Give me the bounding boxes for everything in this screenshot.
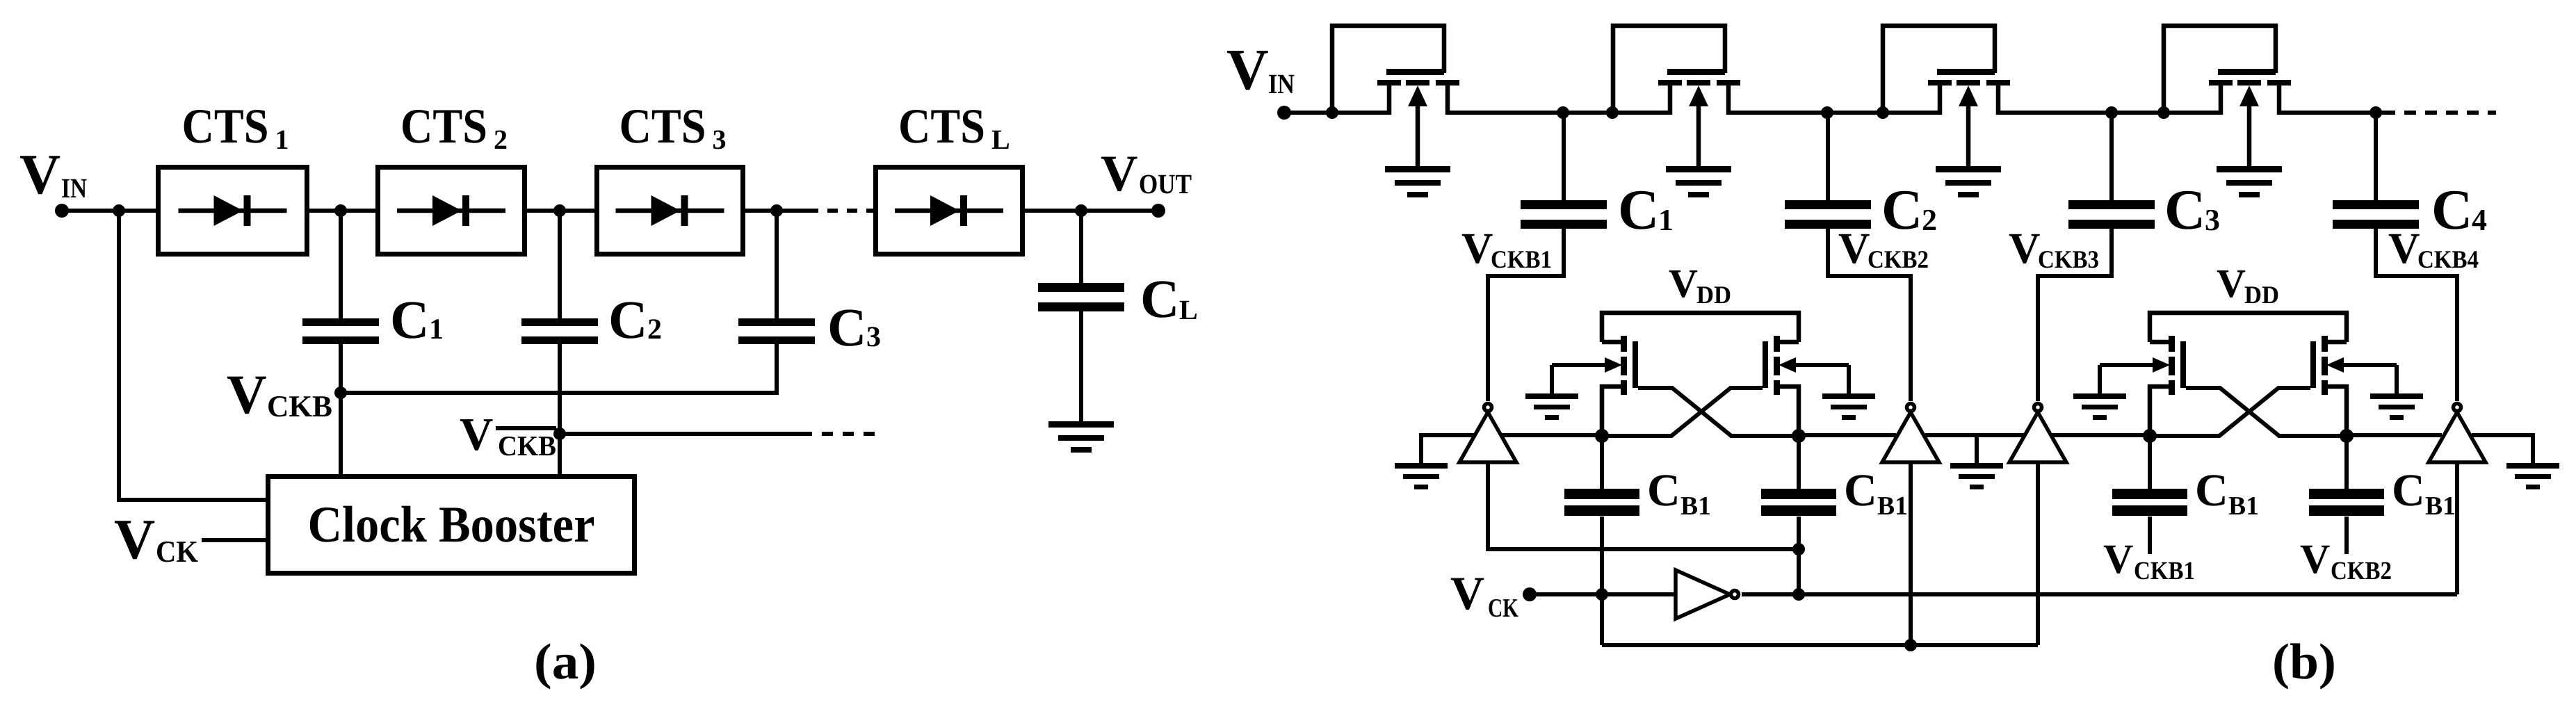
label CTS2 [400,99,508,155]
wire CTSL to VOUT [1025,209,1158,213]
label CTS1 [182,99,289,155]
wire rail dashed continuation [2383,111,2496,115]
svg-text:(a): (a) [534,633,597,690]
junction VCKbar tap for buffer A [1792,543,1805,555]
label C2 (b) [1881,178,1937,241]
junction C3 branch [2105,106,2118,119]
capacitor CB1 cell1 left top wire [1600,436,1604,490]
net VCKB2 label (top) [1838,224,1929,273]
transistor cell1 latch left: gate bar [1633,341,1638,388]
label CB1 cell1 right [1844,465,1908,521]
wire buffer D right to ground [2472,435,2533,464]
node VCK (a) label [114,507,198,571]
wire rail M1 to M2 [1446,111,1671,115]
svg-text:C: C [827,297,866,357]
transistor cell1 latch right: drain stub and wire [1777,387,1799,436]
net VCKBbar dashed continuation [822,432,884,436]
svg-text:C: C [2164,178,2205,241]
svg-text:V: V [227,364,267,425]
junction M1 gate loop [1326,106,1338,119]
label CB1 cell1 left [1647,465,1711,521]
wire cell1 right cap bottom to VCKbar [1797,517,1801,594]
junction VCK at cell1 left cap [1596,588,1608,601]
wire CTS2 to CTS3 [527,209,594,213]
CTSL box [876,168,1023,254]
svg-text:C: C [1844,465,1877,516]
capacitor C3 (a) bottom wire [775,343,779,395]
svg-text:CTS: CTS [182,99,269,154]
transistor cell2 latch right: drain stub and wire [2325,387,2347,436]
junction node L (a) [1075,204,1087,217]
VDD rail cell1 [1602,313,1799,342]
svg-text:2: 2 [1922,203,1937,237]
terminal VOUT [1151,204,1165,218]
net VCKB3 label (top) [2009,224,2099,273]
label C4 (b) [2431,178,2487,241]
transistor cell2 latch right: gate bar [2310,341,2316,388]
label CTSL [898,99,1010,155]
CTS1 box [159,168,307,254]
transistor cell2 latch right: source stub [2326,340,2347,345]
svg-text:V: V [2009,224,2041,273]
diode D1 [179,195,287,226]
buffer C VCKB3 (inverting, output up) [2009,404,2066,463]
svg-text:B1: B1 [1680,491,1711,521]
label CB1 cell2 left [2195,465,2259,521]
svg-text:DD: DD [1696,281,1731,309]
transistor M3 (diode-connected NMOS with bulk ground) [1883,26,2010,197]
CTS2 box [378,168,525,254]
svg-text:C: C [390,289,429,350]
svg-text:IN: IN [1268,68,1295,99]
svg-text:OUT: OUT [1139,168,1192,200]
ground CL [1048,421,1114,453]
capacitor C4 (b) [2333,200,2419,229]
wire rail VIN to M1 [1284,111,1391,115]
svg-text:V: V [2388,224,2420,273]
svg-text:B1: B1 [1877,491,1908,521]
capacitor CB1 cell2 left [2112,489,2187,516]
junction cell2 left boost node [2143,429,2157,443]
label CL [1140,268,1198,329]
wire VCKbar line [1742,592,2457,596]
capacitor C4 (b) top wire [2374,113,2378,202]
junction cell1 right boost node [1792,429,1806,443]
transistor cell2 latch left: bulk arrow [2100,357,2170,373]
net VCKB wire [341,391,777,395]
svg-text:V: V [1838,224,1870,273]
wire cross-couple cell2 left gate to right node [2186,388,2347,436]
wire cell1 right node to buffer B [1799,433,1896,437]
wire buffer B right / buffer C left with ground tap [1925,433,2024,437]
svg-text:Clock Booster: Clock Booster [308,496,595,553]
CTS3 box [597,168,743,254]
svg-text:3: 3 [866,321,881,353]
wire cell2 right node to buffer D [2347,433,2442,437]
svg-text:V: V [2103,536,2133,582]
svg-text:CK: CK [156,535,198,569]
wire ground tap between B and C [1975,435,1979,464]
ground buffer A [1395,463,1448,489]
svg-text:V: V [2300,536,2330,582]
transistor M4 (diode-connected NMOS with bulk ground) [2164,26,2291,197]
svg-text:L: L [1179,294,1198,325]
svg-text:V: V [1226,38,1269,102]
svg-text:1: 1 [429,314,444,346]
svg-text:IN: IN [61,172,87,204]
capacitor C2 (b) top wire [1826,113,1830,202]
wire rail M3 to M4 [1997,111,2222,115]
transistor cell2 latch left: channel segments [2169,336,2175,395]
svg-text:CKB: CKB [498,430,556,462]
capacitor C3 (b) [2068,200,2155,229]
transistor cell1 latch left: bulk arrow [1552,357,1622,373]
capacitor CL [1038,283,1124,311]
svg-text:CKB2: CKB2 [1868,245,1929,273]
junction cell1 left boost node [1595,429,1609,443]
capacitor C3 (a) top wire [775,211,779,320]
capacitor C2 (a) bottom wire [558,343,562,476]
wire buffer D input from VCKbar line [2455,462,2459,594]
wire rail M4 to edge [2278,111,2383,115]
wire VCK rail bottom [1602,643,2038,647]
wire buffer C input from VCK line [2036,462,2040,645]
junction VCKbar at cell1 right cap [1792,588,1805,601]
svg-text:CKB: CKB [267,389,332,423]
capacitor C2 (a) [521,318,598,344]
junction C1 branch [1557,106,1569,119]
terminal VIN (a) [55,204,69,218]
svg-text:C: C [1140,268,1179,329]
svg-text:2: 2 [494,124,508,155]
svg-text:V: V [1669,261,1698,306]
wire dashed continuation to CTSL [808,209,873,213]
net VCKB4 label (top) [2388,224,2479,273]
node VDD label cell1 [1669,261,1731,309]
wire cell2 left cap bottom stub (net VCKB1) [2148,517,2152,554]
capacitor CL bottom wire [1079,310,1083,423]
capacitor C3 (b) top wire [2109,113,2114,202]
node VIN (a) label [19,143,87,206]
transistor cell2 latch right: bulk wire and ground [2370,365,2423,420]
svg-text:CKB1: CKB1 [1491,245,1552,273]
capacitor C3 (b) bottom wire to VCKB3 [2038,227,2112,401]
svg-text:V: V [1461,224,1493,273]
ground between buffers B and C [1950,463,2003,489]
net VCKB2 label (bottom) [2300,536,2392,585]
svg-text:1: 1 [275,124,289,155]
buffer A VCKB1 (inverting, output up) [1459,404,1516,463]
svg-text:L: L [991,124,1010,155]
svg-text:CKB1: CKB1 [2134,557,2195,585]
wire CTS3 to dashes [745,209,808,213]
transistor cell2 latch left: source stub [2150,340,2171,345]
svg-text:V: V [1450,567,1484,619]
capacitor C1 (b) bottom wire to VCKB1 [1488,227,1564,401]
label CTS3 [619,99,727,155]
capacitor C2 (a) top wire [558,211,562,320]
node VOUT label [1101,145,1192,202]
diode D3 [616,195,724,226]
capacitor C3 (a) [738,318,815,344]
svg-text:3: 3 [713,124,727,155]
svg-text:CK: CK [1488,594,1518,623]
capacitor CB1 cell1 right [1761,489,1836,516]
net VCKB1 label (top) [1461,224,1552,273]
node VCK (b) label [1450,567,1518,623]
wire cell1 left cap bottom through VCK to VCK rail [1600,517,1604,645]
transistor cell1 latch right: source stub [1778,340,1799,345]
clock booster box [268,477,635,574]
net VCKBbar label [460,409,556,462]
svg-text:V: V [114,507,155,571]
VDD rail cell2 [2150,313,2347,342]
wire buffer A left to ground [1421,435,1475,464]
transistor cell2 latch left: gate bar [2180,341,2186,388]
capacitor C2 (b) bottom wire to VCKB2 [1828,227,1911,401]
transistor cell2 latch right: bulk arrow [2326,357,2397,373]
transistor cell2 latch right: channel segments [2322,336,2328,395]
wire buffer B input to VCK line [1909,462,1913,645]
svg-text:C: C [1881,178,1922,241]
label CB1 cell2 right [2392,465,2456,521]
svg-text:B1: B1 [2228,491,2259,521]
capacitor C2 (b) [1785,200,1871,229]
net VCKB1 label (bottom) [2103,536,2195,585]
terminal VCK (b) [1523,587,1537,601]
wire cross-couple cell1 left gate to right node [1638,388,1799,436]
capacitor CB1 cell2 right [2309,489,2384,516]
svg-text:CTS: CTS [619,99,706,154]
wire buffer A right to cell1 left node [1501,433,1602,437]
junction cell2 right boost node [2340,429,2354,443]
svg-text:C: C [608,289,647,350]
capacitor C1 (a) top wire [339,211,343,320]
transistor M1 (diode-connected NMOS with bulk ground) [1332,26,1459,197]
label C1 (b) [1618,178,1674,241]
wire buffer A input from VCKbar [1488,462,1799,549]
svg-text:V: V [460,409,493,460]
junction node2 (a) [553,204,566,217]
junction M4 gate loop [2157,106,2170,119]
junction M3 gate loop [1877,106,1889,119]
node VDD label cell2 [2217,261,2279,309]
junction VIN branch [113,204,125,217]
svg-text:2: 2 [647,314,662,346]
wire VCK to clock booster [202,538,266,542]
svg-text:4: 4 [2472,203,2487,237]
wire buffer C right to cell2 left node [2052,433,2150,437]
buffer B VCKB2 (inverting, output up) [1882,404,1939,463]
junction M2 gate loop [1606,106,1619,119]
label C1 (a) [390,289,444,350]
transistor cell1 latch left: source stub [1602,340,1623,345]
svg-text:CTS: CTS [400,99,487,154]
svg-text:C: C [1618,178,1659,241]
svg-text:(b): (b) [2272,633,2336,690]
label C2 (a) [608,289,662,350]
svg-text:C: C [1647,465,1680,516]
capacitor CB1 cell1 left [1564,489,1639,516]
svg-text:1: 1 [1658,203,1674,237]
junction C4 branch [2370,106,2382,119]
svg-text:V: V [19,143,60,206]
svg-text:CKB4: CKB4 [2417,245,2479,273]
junction node3 (a) [770,204,783,217]
inverter VCK (triangle right with bubble) [1676,570,1739,619]
transistor cell1 latch left: channel segments [1621,336,1627,395]
capacitor C1 (b) [1521,200,1607,229]
label C3 (b) [2164,178,2220,241]
wire VCK to inverter [1530,592,1676,596]
capacitor CB1 cell1 right top wire [1797,436,1801,490]
svg-text:CKB2: CKB2 [2331,557,2392,585]
svg-text:V: V [2217,261,2246,306]
capacitor CB1 cell2 right top wire [2344,436,2349,490]
junction VCKB [334,387,347,399]
ground buffer D [2506,463,2559,489]
wire rail M2 to M3 [1727,111,1941,115]
transistor cell1 latch left: bulk wire and ground [1525,365,1578,420]
svg-text:3: 3 [2205,203,2220,237]
junction node1 (a) [334,204,347,217]
svg-text:V: V [1101,145,1137,202]
wire cross-couple cell2 right gate to left node [2150,388,2310,436]
wire VIN branch to clock booster [119,211,266,500]
junction C2 branch [1821,106,1833,119]
svg-text:C: C [2392,465,2425,516]
svg-text:CTS: CTS [898,99,985,154]
net VCKBbar wire [560,432,812,436]
label C3 (a) [827,297,881,357]
junction VCKBbar [553,428,566,440]
svg-text:CKB3: CKB3 [2038,245,2099,273]
terminal VIN (b) [1277,106,1291,120]
capacitor C4 (b) bottom wire to VCKB4 [2376,227,2457,401]
svg-text:C: C [2195,465,2228,516]
wire VIN to CTS1 [62,209,158,213]
svg-text:DD: DD [2244,281,2279,309]
svg-text:C: C [2431,178,2472,241]
capacitor C1 (a) bottom wire [339,343,343,476]
diode D2 [397,195,505,226]
capacitor CL top wire [1079,211,1083,284]
net VCKB label [227,364,332,425]
diode DL [895,195,1003,226]
transistor cell1 latch right: bulk arrow [1779,357,1849,373]
svg-text:B1: B1 [2425,491,2456,521]
wire CTS1 to CTS2 [309,209,375,213]
capacitor C1 (a) [302,318,379,344]
wire cell2 right cap bottom stub (net VCKB2) [2344,517,2349,554]
transistor cell2 latch left: drain stub and wire [2150,387,2171,436]
wire cross-couple cell1 right gate to left node [1602,388,1763,436]
transistor M2 (diode-connected NMOS with bulk ground) [1613,26,1740,197]
node VIN (b) label [1226,38,1295,102]
transistor cell2 latch left: bulk wire and ground [2073,365,2126,420]
transistor cell1 latch right: channel segments [1774,336,1780,395]
junction VCK tap for buffer B [1904,639,1917,651]
transistor cell1 latch right: gate bar [1763,341,1768,388]
transistor cell1 latch left: drain stub and wire [1602,387,1623,436]
transistor cell1 latch right: bulk wire and ground [1822,365,1875,420]
capacitor CB1 cell2 left top wire [2148,436,2152,490]
capacitor C1 (b) top wire [1562,113,1566,202]
buffer D VCKB4 (inverting, output up) [2429,404,2486,463]
